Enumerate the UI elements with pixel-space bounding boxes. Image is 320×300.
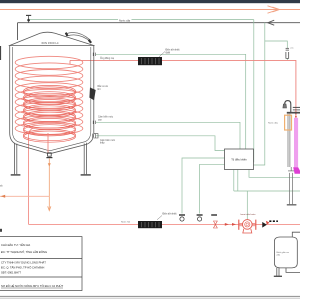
svg-text:SĐT: 0901 BH77: SĐT: 0901 BH77 bbox=[1, 270, 22, 274]
svg-text:Cảm biến mức: Cảm biến mức bbox=[98, 116, 114, 119]
svg-text:bơm tuần hoàn: bơm tuần hoàn bbox=[241, 213, 257, 216]
svg-text:Nước hồi: Nước hồi bbox=[121, 221, 131, 224]
svg-text:60N 1500 Lit: 60N 1500 Lit bbox=[41, 41, 58, 45]
svg-text:Tủ điều khiển: Tủ điều khiển bbox=[231, 158, 247, 162]
svg-text:Rắc co xả: Rắc co xả bbox=[98, 85, 109, 88]
svg-text:Nước cấp: Nước cấp bbox=[119, 19, 131, 22]
svg-text:Ống đồng mạ: Ống đồng mạ bbox=[100, 57, 115, 60]
svg-text:thấp: thấp bbox=[100, 142, 105, 145]
svg-text:Nước đầu: Nước đầu bbox=[268, 122, 279, 125]
svg-text:Bình giãn nở: Bình giãn nở bbox=[277, 251, 290, 254]
svg-text:Cảm biến mức: Cảm biến mức bbox=[100, 139, 116, 142]
svg-text:Điện trở nhiệt: Điện trở nhiệt bbox=[166, 49, 180, 52]
svg-text:van: van bbox=[290, 48, 293, 50]
svg-text:khí: khí bbox=[98, 89, 101, 91]
svg-text:CTY TNHH XÂY DỰNG LONG PHÁT: CTY TNHH XÂY DỰNG LONG PHÁT bbox=[1, 260, 46, 264]
svg-text:Điện trở nhiệt: Điện trở nhiệt bbox=[163, 213, 177, 216]
